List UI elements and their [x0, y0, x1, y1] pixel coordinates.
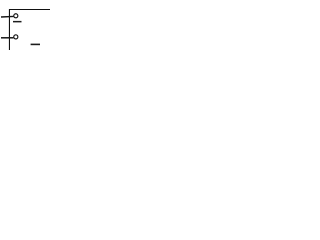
label: bottom right net name — [31, 44, 40, 46]
wire: pin 1 crossbar — [1, 15, 13, 18]
label: net name under pin 1 — [13, 21, 22, 23]
terminal circle pin 1 — [14, 14, 18, 18]
wire: vertical bus — [8, 9, 10, 50]
terminal circle pin 2 — [14, 35, 18, 39]
wire: top horizontal net — [9, 9, 50, 11]
wire: pin 2 crossbar — [1, 37, 13, 39]
